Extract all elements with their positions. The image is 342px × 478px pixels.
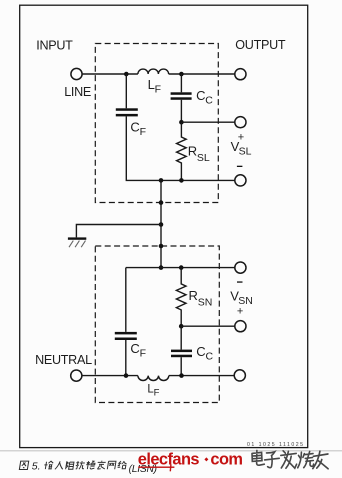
terminal OUT5 <box>235 321 246 332</box>
svg-text:R: R <box>189 288 198 303</box>
node VSL+ junction <box>179 120 184 125</box>
node junction at LF output <box>179 72 184 77</box>
wire node to CF (line side) <box>125 74 127 108</box>
label VSL <box>231 139 252 158</box>
resistor RSN <box>176 268 186 327</box>
node junction CF-rail (neutral side) <box>124 373 129 378</box>
terminal OUT1 <box>235 69 246 80</box>
inductor LF (line side) <box>138 69 169 74</box>
label minus VSL <box>237 166 243 167</box>
svg-text:5.: 5. <box>32 461 41 473</box>
terminal OUT3 <box>235 175 246 186</box>
node bus at dashed edge (neutral side) <box>159 244 164 249</box>
label LF (neutral side) <box>147 384 159 399</box>
svg-text:C: C <box>196 88 205 103</box>
node junction top rail bus (neutral side) <box>159 265 164 270</box>
outer border frame <box>20 5 308 447</box>
svg-text:SL: SL <box>239 146 252 158</box>
node junction rail-RSL <box>179 178 184 183</box>
wire center bus <box>160 180 162 267</box>
svg-text:INPUT: INPUT <box>36 39 73 53</box>
logo hanzi ZI (electronics-2) <box>265 452 280 468</box>
node VSN+ junction <box>179 324 184 329</box>
svg-text:C: C <box>130 119 139 134</box>
svg-text:C: C <box>130 341 139 356</box>
label CF (neutral side) <box>130 341 146 359</box>
wire NEUTRAL terminal to LF <box>82 375 138 377</box>
terminal LINE <box>71 68 82 79</box>
svg-text:F: F <box>154 387 160 398</box>
label CF (line side) <box>130 119 146 137</box>
label LF (line side) <box>148 77 161 96</box>
svg-text:elecfans: elecfans <box>138 450 200 468</box>
ground symbol <box>68 237 86 247</box>
node junction CC-rail (neutral side) <box>179 373 184 378</box>
label minus VSN <box>237 281 243 282</box>
terminal NEUTRAL <box>71 370 82 381</box>
node bus at ground tap <box>159 222 164 227</box>
caption hanzi KANG (impedance-2) <box>75 461 85 469</box>
svg-text:LINE: LINE <box>64 85 91 99</box>
caption hanzi ZU (impedance-1) <box>66 461 75 469</box>
svg-text:C: C <box>205 95 213 107</box>
capacitor CC (neutral side) <box>171 350 192 358</box>
wire CF to bottom rail <box>126 116 235 180</box>
wire CF to bottom rail (neutral side) <box>125 340 127 376</box>
caption hanzi LUO (network-2) <box>117 461 127 469</box>
label RSN <box>189 288 213 309</box>
logo hanzi SHAO (fever-2) <box>298 451 314 467</box>
svg-text:com: com <box>210 450 242 468</box>
svg-text:F: F <box>140 126 146 138</box>
caption hanzi RU (input-2) <box>55 461 64 469</box>
terminal OUT2 <box>235 117 246 128</box>
wire LF to OUT1 <box>169 73 235 75</box>
label VSN <box>230 288 253 307</box>
terminal OUT4 <box>235 262 246 273</box>
svg-text:F: F <box>140 348 146 360</box>
capacitor CF (line side) <box>116 108 138 116</box>
label CC (neutral side) <box>196 344 213 362</box>
caption hanzi TU (figure) <box>19 461 28 469</box>
resistor RSL <box>177 122 187 180</box>
logo hanzi YOU (friend) <box>313 451 328 469</box>
terminal OUT6 <box>234 370 245 381</box>
inductor LF (neutral side) <box>138 376 169 381</box>
wire CC to VSL node <box>180 100 182 122</box>
label CC (line side) <box>196 88 213 106</box>
svg-text:F: F <box>155 84 161 96</box>
caption hanzi SHU (input-1) <box>44 461 54 469</box>
caption hanzi WANG (network-1) <box>107 461 116 469</box>
svg-text:+: + <box>237 306 243 318</box>
wire node to CC (line side) <box>180 74 182 92</box>
node junction rail-bus (line side) <box>159 178 164 183</box>
capacitor CC (line side) <box>171 92 192 100</box>
svg-text:SN: SN <box>198 297 213 309</box>
label RSL <box>188 143 210 164</box>
logo hanzi FA (fever-1) <box>281 451 297 469</box>
node junction at LF input <box>124 72 129 77</box>
svg-text:SL: SL <box>197 152 210 164</box>
svg-text:R: R <box>188 143 197 158</box>
dashed box LISN cell (line side) <box>95 44 218 203</box>
wire LF to OUT6 <box>169 375 234 377</box>
grey rule under frame <box>0 450 342 451</box>
wire CC to bottom rail <box>180 357 182 375</box>
svg-text:C: C <box>206 351 214 363</box>
wire top rail (neutral side) <box>126 267 235 269</box>
svg-text:NEUTRAL: NEUTRAL <box>35 353 92 367</box>
caption hanzi WEN (stabilize-1) <box>86 461 96 469</box>
wire node to OUT2 <box>181 121 234 123</box>
svg-text:C: C <box>196 344 205 359</box>
node junction rail-RSN <box>179 265 184 270</box>
wire LINE terminal to LF <box>82 73 138 75</box>
logo hanzi DIAN (electronics-1) <box>252 450 264 465</box>
caption hanzi DING (stabilize-2) <box>97 461 106 469</box>
wire ground tap <box>76 225 161 238</box>
wire rail to CF (neutral side) <box>125 268 127 332</box>
wire VSN node to CC (neutral side) <box>180 326 182 349</box>
dashed box LISN cell (neutral side) <box>95 246 219 403</box>
capacitor CF (neutral side) <box>115 332 137 340</box>
wire node to OUT5 <box>181 325 235 327</box>
svg-text:OUTPUT: OUTPUT <box>235 38 286 52</box>
logo elecfans.com <box>138 450 243 471</box>
node bus at dashed edge (line side) <box>159 200 164 205</box>
